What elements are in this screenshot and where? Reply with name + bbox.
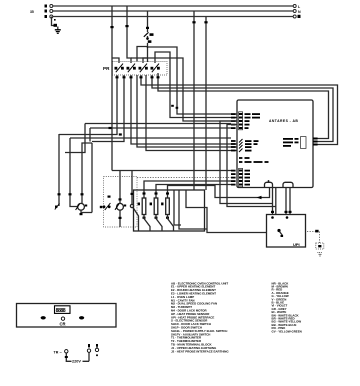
wire L drop x=127 to relay contact 2 bbox=[125, 6, 131, 63]
connector hanging on AB bottom edge x288 bbox=[283, 182, 293, 187]
wire x82 feed motor top bbox=[81, 143, 93, 203]
connector mark on rail bbox=[171, 105, 174, 107]
pin row (y174) bbox=[231, 173, 250, 175]
wire long feed y138 to pin row bbox=[70, 137, 231, 139]
svg-text:GV - YELLOW-GREEN: GV - YELLOW-GREEN bbox=[272, 329, 302, 333]
relay contact 2 bbox=[127, 64, 136, 73]
pin row (y177.5) bbox=[231, 177, 250, 179]
pin row S sensor (y162) long label bbox=[239, 161, 269, 163]
label 220V bbox=[72, 359, 83, 364]
svg-text:220V: 220V bbox=[72, 359, 81, 363]
wire contact 3 bottom wrap-around to UPI connector pin 3 bbox=[140, 75, 338, 145]
wire feed y206.5 into UPI pair bbox=[227, 125, 276, 207]
wire x70 down to door lock motor bbox=[69, 138, 78, 207]
heat probe interface UPI box bbox=[267, 215, 306, 248]
door lock motor M4 bbox=[76, 203, 88, 210]
pin row (y181) bbox=[231, 180, 250, 182]
pin row (y128) bbox=[231, 127, 249, 129]
dashed wire heat probe to pin row bbox=[137, 177, 231, 179]
heating element E2 bbox=[150, 192, 162, 231]
relay contact 4 bbox=[151, 64, 160, 73]
door lock switch SH1D on dashed edge bbox=[100, 196, 111, 211]
wire long feed y123.5 bbox=[65, 124, 231, 153]
connector shell CN2 on AB left edge bbox=[239, 168, 243, 186]
wire motor M4 bottom to x92 bbox=[80, 143, 93, 215]
wire left feed x59 down to aux switch bbox=[58, 134, 61, 206]
wire earth drop to main ground bbox=[52, 17, 58, 30]
terminal block TB earth line (top bus 3) bbox=[45, 15, 301, 18]
relay contact 3 bbox=[139, 64, 148, 73]
connector shell CN1 on AB left edge bbox=[239, 112, 243, 130]
svg-text:PR: PR bbox=[103, 66, 110, 71]
wire contact 4 right terminal wrap-around to UPI connector pin 1 bbox=[157, 73, 329, 139]
thermolimiter T2 bbox=[148, 40, 152, 62]
pin row (y170.5) bbox=[231, 170, 250, 172]
wire long feed y128 to pin bbox=[90, 127, 231, 142]
pin row arrows group (y141) bbox=[231, 139, 259, 143]
cooling fan motor M2 bbox=[115, 171, 126, 228]
wire contact 4 bottom wrap-around to UPI connector pin 2 bbox=[151, 75, 334, 142]
pin row 1 (y114) bbox=[231, 113, 260, 115]
dashed enclosure cooling fan group bbox=[104, 177, 138, 228]
wire to pin row y150.5 bbox=[146, 75, 237, 151]
legend component list bbox=[171, 281, 229, 353]
svg-text:J2 - HEAT PROBE INTERFACE EART: J2 - HEAT PROBE INTERFACE EARTHING bbox=[171, 349, 229, 353]
node junction fuse line bbox=[147, 46, 149, 48]
heating element E3 bbox=[161, 192, 173, 231]
wire contact bottom going left to x92 bbox=[92, 75, 126, 142]
clock terminal 1 bbox=[87, 344, 90, 361]
wire rail contact 2 top to pin row 3 bbox=[131, 58, 237, 121]
wire long feed y170.5 bbox=[112, 170, 231, 172]
wire rail contact top to pin row 1 bbox=[148, 47, 238, 114]
probe jack inside UPI bbox=[277, 229, 283, 237]
wire inner rail x174 bbox=[174, 190, 181, 225]
door switch SH1P bbox=[130, 171, 138, 232]
control panel front view bbox=[17, 304, 117, 328]
wire element feed via y185.5 to probe arrow bbox=[168, 186, 270, 199]
wire contact 1 top feed bbox=[112, 58, 119, 63]
heating element E1 bbox=[138, 192, 150, 231]
wire element feed y184.5 bbox=[156, 185, 231, 199]
clock terminal 2 bbox=[95, 344, 98, 356]
connector hanging on AB bottom edge x268 bbox=[265, 180, 273, 187]
wire contact 1 bottom going left to x59 bbox=[59, 75, 122, 136]
heat probe HP dashed body bbox=[316, 243, 324, 249]
legend colour code list bbox=[272, 281, 302, 333]
wire L drop x=112 to lower circuit bbox=[110, 6, 113, 171]
svg-text:TR: TR bbox=[54, 351, 59, 355]
label oven lamp / door lock at right connector bbox=[283, 138, 299, 147]
wire switch box edge bbox=[137, 47, 148, 62]
wire inner rail x179 to UPI feed bbox=[179, 190, 207, 229]
wire contact 3 top feed bbox=[143, 58, 148, 63]
wire to pin row y147 bbox=[137, 75, 237, 147]
svg-text:35: 35 bbox=[30, 10, 34, 14]
svg-text:N: N bbox=[298, 10, 301, 14]
ground J2 dotted below probe bbox=[318, 253, 323, 257]
arrowhead on probe interface wire bbox=[257, 196, 262, 199]
dashed wire to heat probe HP bbox=[307, 230, 320, 243]
pin marks CN3 out (wrap wires) bbox=[313, 138, 318, 146]
wire pair AB to UPI right pair bbox=[285, 188, 292, 219]
svg-text:CR: CR bbox=[60, 322, 66, 327]
knob left bbox=[41, 316, 46, 319]
aux switch SH1FV blade bbox=[55, 204, 60, 210]
thermolimiter T1 bbox=[144, 32, 154, 40]
ground (main earth symbol) bbox=[55, 30, 61, 34]
heating elements enclosure box bbox=[134, 190, 205, 231]
pin row (y124.5) bbox=[231, 124, 250, 126]
pin row 3 (y121) bbox=[231, 120, 250, 122]
pin row arrows group (y147) bbox=[231, 145, 252, 149]
pin row (y184.5) bbox=[231, 184, 250, 186]
pin row arrows group (y150.5) bbox=[231, 149, 252, 153]
button CR circle bbox=[61, 317, 64, 320]
wire pair AB to UPI left pair bbox=[271, 188, 276, 219]
wire feed y203.5 into UPI pair bbox=[220, 121, 273, 204]
connector mark on rail bbox=[176, 107, 179, 109]
pin row 2 (y117.5) bbox=[231, 117, 260, 119]
wire 220V primary bbox=[65, 353, 89, 361]
wire N drop x=147.5 through thermolimiters bbox=[146, 11, 149, 32]
relay contact 1 bbox=[115, 64, 124, 73]
display window bbox=[55, 306, 71, 314]
svg-text:ANTARES - AB: ANTARES - AB bbox=[269, 119, 298, 123]
pin row arrows group (y144) bbox=[231, 142, 258, 146]
svg-text:8888: 8888 bbox=[56, 308, 66, 314]
pin row single (y158) bbox=[239, 157, 250, 159]
wire rail contact 4 top to pin row 2 bbox=[155, 52, 237, 118]
wire N drop x=194 bbox=[192, 11, 195, 190]
svg-text:UPI: UPI bbox=[293, 242, 300, 247]
wire earth drop x=206 to elements enclosure bbox=[204, 17, 207, 191]
terminal block TB supply line N (top bus 2) bbox=[45, 10, 302, 15]
oven control unit AB box bbox=[237, 100, 313, 188]
wire contact 2 bottom to pin row y144 bbox=[130, 75, 238, 144]
relay PR dotted enclosure bbox=[113, 62, 168, 76]
wire element feed y181 bbox=[144, 181, 231, 198]
terminal block TB supply line L (top bus 1) bbox=[45, 5, 302, 10]
transformer terminal circle bbox=[65, 350, 68, 353]
connector shell CN3 on AB right edge bbox=[301, 137, 307, 149]
knob right bbox=[79, 316, 84, 319]
wire inner rail x186 to right bbox=[186, 190, 267, 233]
